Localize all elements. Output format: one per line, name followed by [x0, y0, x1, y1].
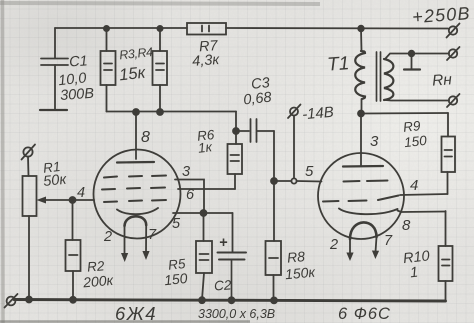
svg-text:1к: 1к — [197, 139, 213, 155]
V1 heater arrow pin2 — [121, 226, 128, 262]
label pin 3 V1 — [182, 164, 190, 180]
wire V1 anode lead — [135, 112, 137, 159]
V1 grid row 2 — [102, 188, 165, 190]
V2 heater arrow pin2 — [346, 239, 353, 261]
svg-text:8: 8 — [141, 129, 150, 146]
V1 grid row 3 — [104, 200, 166, 202]
svg-text:2: 2 — [103, 229, 112, 245]
label pin 8 V2 — [402, 217, 411, 234]
wire V2 pin4 — [400, 194, 448, 195]
resistor R7 — [187, 23, 226, 35]
capacitor C3 — [236, 119, 274, 142]
junction dot top R4 — [157, 26, 162, 31]
scan edge left — [1, 0, 5, 323]
terminal output bottom — [447, 94, 460, 107]
svg-text:1: 1 — [409, 265, 419, 282]
transformer T1 primary winding — [355, 51, 365, 99]
junction dot R1 bus — [26, 297, 32, 303]
label R7 — [192, 38, 221, 70]
transformer T1 secondary winding — [384, 59, 393, 100]
svg-text:7: 7 — [384, 233, 393, 249]
resistor R10 — [439, 211, 453, 301]
transformer T1 primary lead — [360, 29, 363, 52]
svg-text:0,68: 0,68 — [243, 90, 273, 109]
node small circle on grid wire — [291, 178, 296, 183]
terminal input — [22, 145, 36, 160]
svg-text:3300,0 x 6,3В: 3300,0 x 6,3В — [198, 307, 275, 321]
V2 grid row 2 — [323, 196, 399, 202]
T1 primary bottom lead — [361, 99, 363, 114]
terminal output top — [447, 47, 460, 60]
wire V1 pin5 cathode — [173, 212, 233, 214]
wire secondary bottom — [385, 99, 449, 102]
svg-text:4,3к: 4,3к — [192, 52, 221, 70]
capacitor C1 — [40, 59, 68, 111]
svg-text:6 Ф6С: 6 Ф6С — [338, 305, 391, 323]
potentiometer R1 — [23, 157, 37, 300]
resistor R4 — [153, 29, 168, 112]
junction dot T1 bottom — [358, 111, 364, 117]
label -14V — [301, 104, 334, 124]
resistor R9 — [442, 113, 456, 194]
chassis bar on secondary — [404, 54, 420, 70]
tube V2 envelope — [318, 153, 404, 239]
label pin 3 V2 — [370, 133, 379, 150]
svg-text:3: 3 — [182, 164, 190, 180]
terminal -14V — [288, 105, 301, 119]
junction dot R4 bottom — [157, 109, 163, 115]
wire C3 to grid node — [273, 131, 275, 181]
svg-text:C2: C2 — [214, 277, 233, 293]
svg-text:+: + — [219, 235, 228, 251]
svg-text:7: 7 — [148, 227, 157, 243]
wire V1 pin3 — [175, 180, 204, 214]
V2 cathode — [339, 209, 398, 215]
label pin 8 V1 — [141, 129, 150, 146]
label tube type 6F6S — [338, 305, 391, 323]
junction dot anode V1 — [133, 109, 139, 115]
resistor R8 — [266, 181, 282, 300]
V2 anode bar — [343, 165, 383, 168]
resistor R6 — [228, 131, 243, 189]
terminal ground — [5, 294, 18, 308]
label pin 7 V2 — [384, 233, 393, 249]
wire down to C3 node — [235, 112, 237, 132]
junction dot grid node — [271, 178, 277, 184]
junction dot R2 bus — [70, 297, 76, 303]
wire grid to V2 — [277, 180, 292, 182]
resistor R5 — [196, 213, 212, 300]
svg-text:R8: R8 — [286, 248, 305, 266]
V1 heater dome — [125, 216, 147, 226]
V1 cathode — [117, 208, 158, 214]
junction dot R2 top — [70, 197, 76, 203]
wire secondary top — [385, 54, 449, 60]
svg-text:Т1: Т1 — [326, 53, 350, 75]
V2 grid row 1 — [344, 181, 388, 182]
svg-text:Rн: Rн — [432, 71, 453, 89]
svg-text:4: 4 — [410, 177, 418, 194]
label R5 — [163, 256, 188, 288]
svg-text:-14В: -14В — [301, 104, 334, 124]
wire pin6 V1 — [178, 188, 235, 190]
wire C1 top lead — [54, 28, 56, 58]
svg-text:C1: C1 — [69, 53, 89, 70]
wire T1 bottom to R9 — [362, 112, 449, 115]
scan edge bottom — [0, 320, 250, 323]
label pin 5 V2 — [305, 163, 314, 180]
label Rn load — [432, 71, 453, 89]
label C1 — [57, 53, 94, 104]
junction dot R5 bus — [199, 297, 205, 303]
V1 grid row 1 — [104, 176, 166, 178]
label R3,R4 — [118, 45, 153, 84]
label C2 — [214, 277, 233, 293]
label pin 6 V1 — [186, 187, 195, 203]
junction dot T1 top — [358, 26, 364, 32]
V1 heater arrow pin7 — [142, 225, 149, 260]
label T1 — [326, 53, 350, 75]
label R1 — [42, 159, 68, 190]
svg-text:6Ж4: 6Ж4 — [115, 303, 157, 323]
svg-text:300В: 300В — [60, 86, 95, 104]
V1 anode bar — [117, 161, 154, 164]
T1 core — [377, 52, 381, 101]
label tube type 6Zh4 — [115, 303, 157, 323]
svg-text:150: 150 — [163, 270, 188, 288]
capacitor C2 electrolytic — [218, 253, 247, 300]
svg-text:15к: 15к — [118, 64, 147, 85]
wire C2 top lead — [232, 213, 234, 252]
label pin 2 V2 — [329, 237, 338, 253]
junction dot top R3 — [104, 26, 109, 31]
svg-text:4: 4 — [77, 185, 85, 201]
label pin 4 V1 — [77, 185, 85, 201]
label pin 7 V1 — [148, 227, 157, 243]
V2 heater arrow pin7 — [372, 237, 379, 259]
label pin 2 V1 — [103, 229, 112, 245]
svg-text:8: 8 — [402, 217, 411, 234]
R1 wiper arrow — [37, 197, 95, 204]
svg-text:150к: 150к — [284, 264, 317, 283]
label R10 — [402, 248, 430, 281]
svg-text:6: 6 — [186, 187, 195, 203]
junction dot secondary ground tap — [409, 51, 415, 57]
label C3 — [243, 75, 273, 108]
svg-text:5: 5 — [305, 163, 314, 180]
label +250V — [412, 3, 472, 27]
scan edge top — [0, 3, 320, 4]
svg-text:200к: 200к — [81, 272, 115, 291]
label pin 4 V2 — [410, 177, 418, 194]
svg-text:50к: 50к — [43, 172, 69, 190]
junction dot C2 bus — [229, 297, 235, 303]
svg-text:2: 2 — [329, 237, 338, 253]
junction dot cathode node — [201, 210, 207, 216]
resistor R3 — [101, 29, 116, 112]
label R6 — [196, 127, 215, 156]
wire screen bus y112 — [107, 111, 237, 113]
label R2 — [81, 258, 115, 290]
svg-text:3: 3 — [370, 133, 379, 150]
resistor R2 — [66, 200, 81, 300]
label R9 — [402, 118, 427, 150]
wire V2 anode lead — [360, 114, 362, 167]
junction dot R8 bus — [271, 297, 277, 303]
label C2 value — [198, 307, 275, 321]
wire -14V drop — [293, 116, 295, 179]
tube V1 envelope — [94, 150, 181, 239]
junction node C3/R6 — [233, 128, 239, 134]
terminal +250V — [447, 24, 460, 38]
svg-text:R9: R9 — [402, 118, 421, 135]
svg-text:5: 5 — [172, 216, 181, 232]
V2 heater dome — [350, 222, 377, 239]
label R8 — [284, 248, 317, 282]
ground bus — [14, 300, 446, 302]
wire V2 pin8 — [398, 211, 446, 213]
label C2 plus — [219, 235, 228, 251]
svg-text:150: 150 — [403, 133, 427, 150]
label pin 5 V1 — [172, 216, 181, 232]
wire top rail left — [55, 27, 187, 29]
svg-text:+250В: +250В — [412, 3, 472, 27]
wire top rail right — [226, 27, 448, 30]
